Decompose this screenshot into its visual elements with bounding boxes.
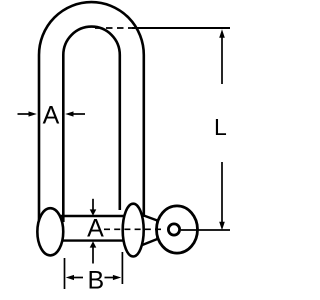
svg-text:A: A [87, 215, 104, 243]
svg-text:L: L [214, 114, 227, 140]
svg-text:A: A [43, 101, 60, 129]
svg-text:B: B [87, 266, 104, 294]
